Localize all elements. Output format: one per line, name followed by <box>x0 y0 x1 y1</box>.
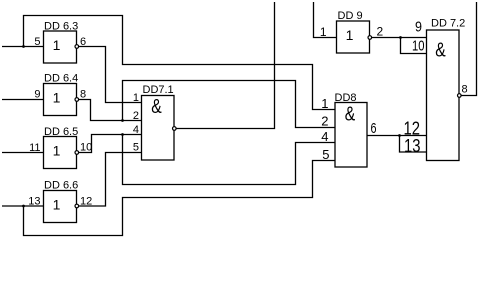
svg-text:1: 1 <box>321 96 328 111</box>
svg-text:1: 1 <box>53 90 61 106</box>
svg-text:DD 6.6: DD 6.6 <box>44 180 78 192</box>
svg-text:9: 9 <box>34 89 40 101</box>
svg-text:&: & <box>345 104 356 126</box>
svg-text:DD 6.3: DD 6.3 <box>44 21 78 33</box>
svg-text:1: 1 <box>53 143 61 159</box>
svg-text:2: 2 <box>133 110 139 122</box>
svg-text:DD7.1: DD7.1 <box>143 84 174 96</box>
svg-text:13: 13 <box>28 196 40 208</box>
svg-text:5: 5 <box>34 36 40 48</box>
svg-text:1: 1 <box>346 27 354 43</box>
svg-text:&: & <box>151 96 162 118</box>
svg-text:5: 5 <box>322 147 329 162</box>
svg-text:1: 1 <box>53 37 61 53</box>
svg-text:4: 4 <box>321 129 328 144</box>
svg-text:DD 7.2: DD 7.2 <box>431 18 465 30</box>
svg-text:6: 6 <box>371 120 377 137</box>
svg-text:&: & <box>435 40 446 62</box>
svg-text:8: 8 <box>462 84 468 96</box>
svg-text:10: 10 <box>80 142 92 154</box>
svg-text:13: 13 <box>404 136 421 156</box>
svg-text:8: 8 <box>80 89 86 101</box>
svg-text:10: 10 <box>412 38 425 55</box>
svg-text:6: 6 <box>80 36 86 48</box>
svg-text:2: 2 <box>377 25 384 39</box>
svg-text:2: 2 <box>321 114 328 129</box>
svg-text:11: 11 <box>29 142 40 154</box>
svg-text:DD 6.5: DD 6.5 <box>44 126 78 138</box>
svg-text:5: 5 <box>133 142 139 154</box>
svg-text:1: 1 <box>320 25 327 39</box>
svg-text:12: 12 <box>80 196 92 208</box>
svg-text:1: 1 <box>133 92 139 104</box>
svg-text:1: 1 <box>53 197 61 213</box>
svg-text:4: 4 <box>133 124 139 136</box>
svg-text:DD 9: DD 9 <box>338 10 363 22</box>
svg-text:DD8: DD8 <box>335 92 357 104</box>
svg-text:DD 6.4: DD 6.4 <box>44 73 78 85</box>
svg-text:9: 9 <box>415 19 422 36</box>
